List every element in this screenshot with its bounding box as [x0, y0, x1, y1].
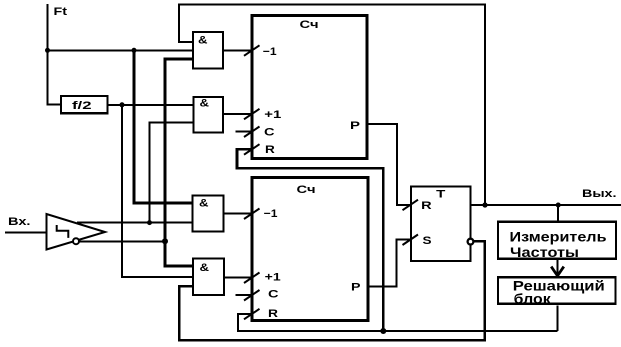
slash CT1 C	[244, 127, 260, 138]
counter CT2 box	[252, 178, 368, 321]
svg-text:C: C	[268, 289, 279, 301]
wire trigger inverted output	[79, 240, 165, 242]
svg-text:&: &	[200, 98, 210, 110]
wire arrow shaft meter to decision block	[557, 259, 559, 276]
svg-text:−1: −1	[263, 46, 277, 58]
slash CT1 -1	[244, 45, 260, 56]
AND gate D2	[194, 97, 224, 133]
slash T R input	[403, 200, 419, 211]
slash T S input	[403, 235, 419, 246]
wire bus x149 from trigger out to gate D2 bottom input	[150, 123, 195, 223]
AND gate D1	[193, 32, 223, 69]
wire gate D4 output to CT2 +1 input	[224, 277, 252, 279]
junction dot Q meter tap	[556, 203, 561, 208]
junction dot trigger out	[147, 220, 152, 225]
wire CT1 P output to T flip-flop R input	[367, 124, 411, 205]
wire gate D3 output to CT2 -1 input	[224, 213, 253, 215]
T flip-flop box	[411, 187, 471, 262]
svg-text:Частоты: Частоты	[510, 244, 579, 260]
svg-text:&: &	[199, 198, 209, 210]
svg-text:R: R	[265, 144, 275, 156]
frequency meter box	[498, 222, 616, 259]
svg-text:блок: блок	[514, 290, 552, 306]
wire bus x122 from f/2 out to gate D4 mid input	[122, 105, 193, 277]
svg-text:C: C	[264, 127, 275, 139]
junction dot f/2 out	[120, 102, 125, 107]
wire CT1 R from reset bus	[237, 149, 383, 331]
wire CT2 P output to T flip-flop S input	[368, 240, 411, 287]
svg-text:P: P	[350, 120, 360, 132]
junction dot trigger inverted out	[162, 238, 168, 244]
trigger inverted output bubble	[73, 238, 79, 244]
AND gate D4	[193, 259, 224, 295]
junction dot reset bus	[380, 328, 386, 334]
AND gate D3	[193, 196, 224, 232]
junction dot Ft branch	[132, 48, 137, 53]
svg-text:+1: +1	[265, 272, 281, 284]
svg-text:Измеритель: Измеритель	[510, 228, 607, 244]
svg-text:R: R	[421, 200, 432, 212]
wire Ft vertical into f/2	[48, 4, 63, 105]
svg-text:S: S	[423, 235, 432, 247]
wire bus x165 gate D1 bottom input to gate D4 top input	[165, 59, 193, 266]
counter CT1 box	[252, 16, 367, 159]
svg-text:P: P	[351, 281, 361, 293]
wire tap to frequency meter	[557, 205, 559, 222]
wire CT1 C stub	[236, 131, 253, 133]
wire f/2 output to gate D2 input	[106, 104, 194, 106]
slash CT1 +1	[244, 109, 260, 120]
wire CT2 R from reset bus	[238, 314, 558, 331]
svg-text:Ft: Ft	[54, 6, 68, 18]
slash CT2 +1	[244, 273, 260, 284]
svg-text:f/2: f/2	[72, 100, 92, 112]
junction dot Ft/f2	[45, 48, 50, 53]
wire Ft branch to gate D1 input	[48, 49, 194, 51]
wire bus x134 from Ft line to gate D3 top input	[134, 50, 193, 203]
slash CT1 R	[244, 144, 260, 155]
decision block box	[498, 277, 616, 304]
svg-text:Сч: Сч	[297, 184, 316, 196]
wire Q feedback outer loop to gate D1 top input	[179, 5, 485, 206]
wire trigger direct output to gate D3 bottom input	[77, 222, 193, 224]
dynamic input slashes	[244, 45, 418, 319]
wire input Vx line	[5, 231, 47, 233]
svg-text:&: &	[200, 262, 210, 274]
wire decision block down to reset bus	[557, 306, 559, 332]
slash CT2 C	[244, 290, 260, 301]
svg-text:Сч: Сч	[300, 19, 319, 31]
wire Qbar feedback bottom loop to gate D4 bottom input	[179, 241, 485, 340]
wire gate D1 output to CT1 -1 input	[223, 49, 252, 51]
wire T output Q to Vyh	[470, 204, 621, 206]
svg-text:&: &	[198, 34, 208, 46]
wire gate D2 output to CT1 +1 input	[223, 113, 252, 115]
junction dot Q outer loop	[482, 202, 487, 207]
slash CT2 -1	[244, 209, 260, 220]
svg-text:T: T	[436, 188, 446, 200]
wire CT2 C stub	[236, 294, 253, 296]
svg-text:−1: −1	[264, 208, 278, 220]
svg-text:+1: +1	[264, 109, 281, 121]
svg-text:R: R	[268, 308, 278, 320]
svg-text:Вых.: Вых.	[582, 188, 617, 200]
slash CT2 R	[244, 309, 260, 320]
divider f/2 box	[61, 96, 108, 113]
arrowhead meter to decision	[551, 267, 564, 276]
T flip-flop inverted output bubble	[468, 239, 474, 245]
schmitt trigger U1	[47, 214, 106, 250]
svg-text:Вх.: Вх.	[8, 216, 31, 228]
